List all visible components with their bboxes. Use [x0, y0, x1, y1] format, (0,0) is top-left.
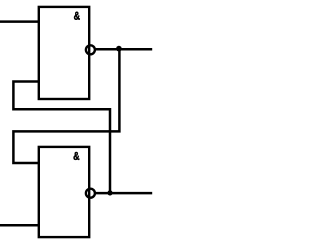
U2 function label & — [74, 152, 80, 160]
nand gate U1 (top) body — [39, 7, 89, 99]
U1 function label & — [74, 12, 80, 20]
node: junction on Qbar wire — [107, 190, 112, 195]
wire: U2 output Qbar — [95, 192, 152, 195]
wire: input S to U1 pin 1 — [0, 20, 39, 23]
U1 output inversion bubble — [86, 45, 95, 54]
nand gate U2 (bottom) body — [39, 147, 89, 237]
U2 output inversion bubble — [86, 189, 95, 198]
node: junction on Q wire — [116, 46, 122, 52]
wire: U1 output Q — [95, 48, 152, 51]
wire: feedback Qbar to U1 lower input (up, left, up, right) — [13, 82, 110, 194]
wire: input R to U2 pin 2 — [0, 224, 39, 227]
wire: feedback Q to U2 upper input (down, left, down, right) — [13, 49, 119, 163]
